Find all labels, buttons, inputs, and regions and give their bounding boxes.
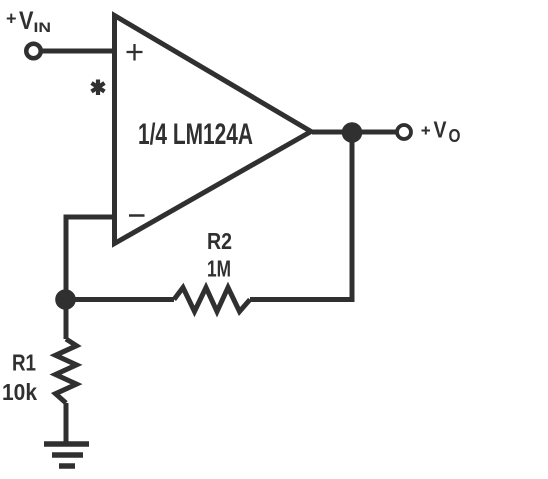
terminal +VIN — [26, 44, 41, 59]
wire output — [312, 130, 396, 135]
ground — [44, 444, 89, 466]
label +VIN — [6, 7, 51, 35]
node A junction — [55, 289, 76, 310]
svg-text:10k: 10k — [2, 379, 37, 405]
svg-text:1M: 1M — [207, 256, 231, 282]
svg-text:O: O — [449, 126, 461, 146]
svg-text:+: + — [6, 9, 17, 29]
wire R2 to node A — [66, 297, 175, 302]
pin + (non-inverting input) — [127, 44, 143, 61]
wire R1 to ground — [64, 403, 69, 444]
asterisk marker — [92, 80, 105, 96]
svg-text:R2: R2 — [207, 228, 232, 254]
svg-text:V: V — [434, 117, 448, 143]
wire feedback (down from output node and left to R2) — [250, 137, 352, 300]
op-amp U1 — [115, 16, 312, 244]
node output junction — [342, 122, 363, 143]
terminal +VO — [397, 125, 411, 139]
resistor R2 — [174, 288, 250, 312]
wire input — [42, 49, 113, 54]
wire inverting input to node A — [66, 217, 114, 300]
resistor R1 — [56, 339, 77, 403]
svg-text:IN: IN — [34, 19, 52, 35]
svg-text:R1: R1 — [12, 350, 36, 376]
label +VO — [422, 117, 461, 147]
svg-text:1/4 LM124A: 1/4 LM124A — [138, 118, 253, 151]
pin - (inverting input) — [129, 214, 145, 217]
svg-text:V: V — [19, 7, 34, 35]
wire node A to R1 — [64, 300, 69, 340]
